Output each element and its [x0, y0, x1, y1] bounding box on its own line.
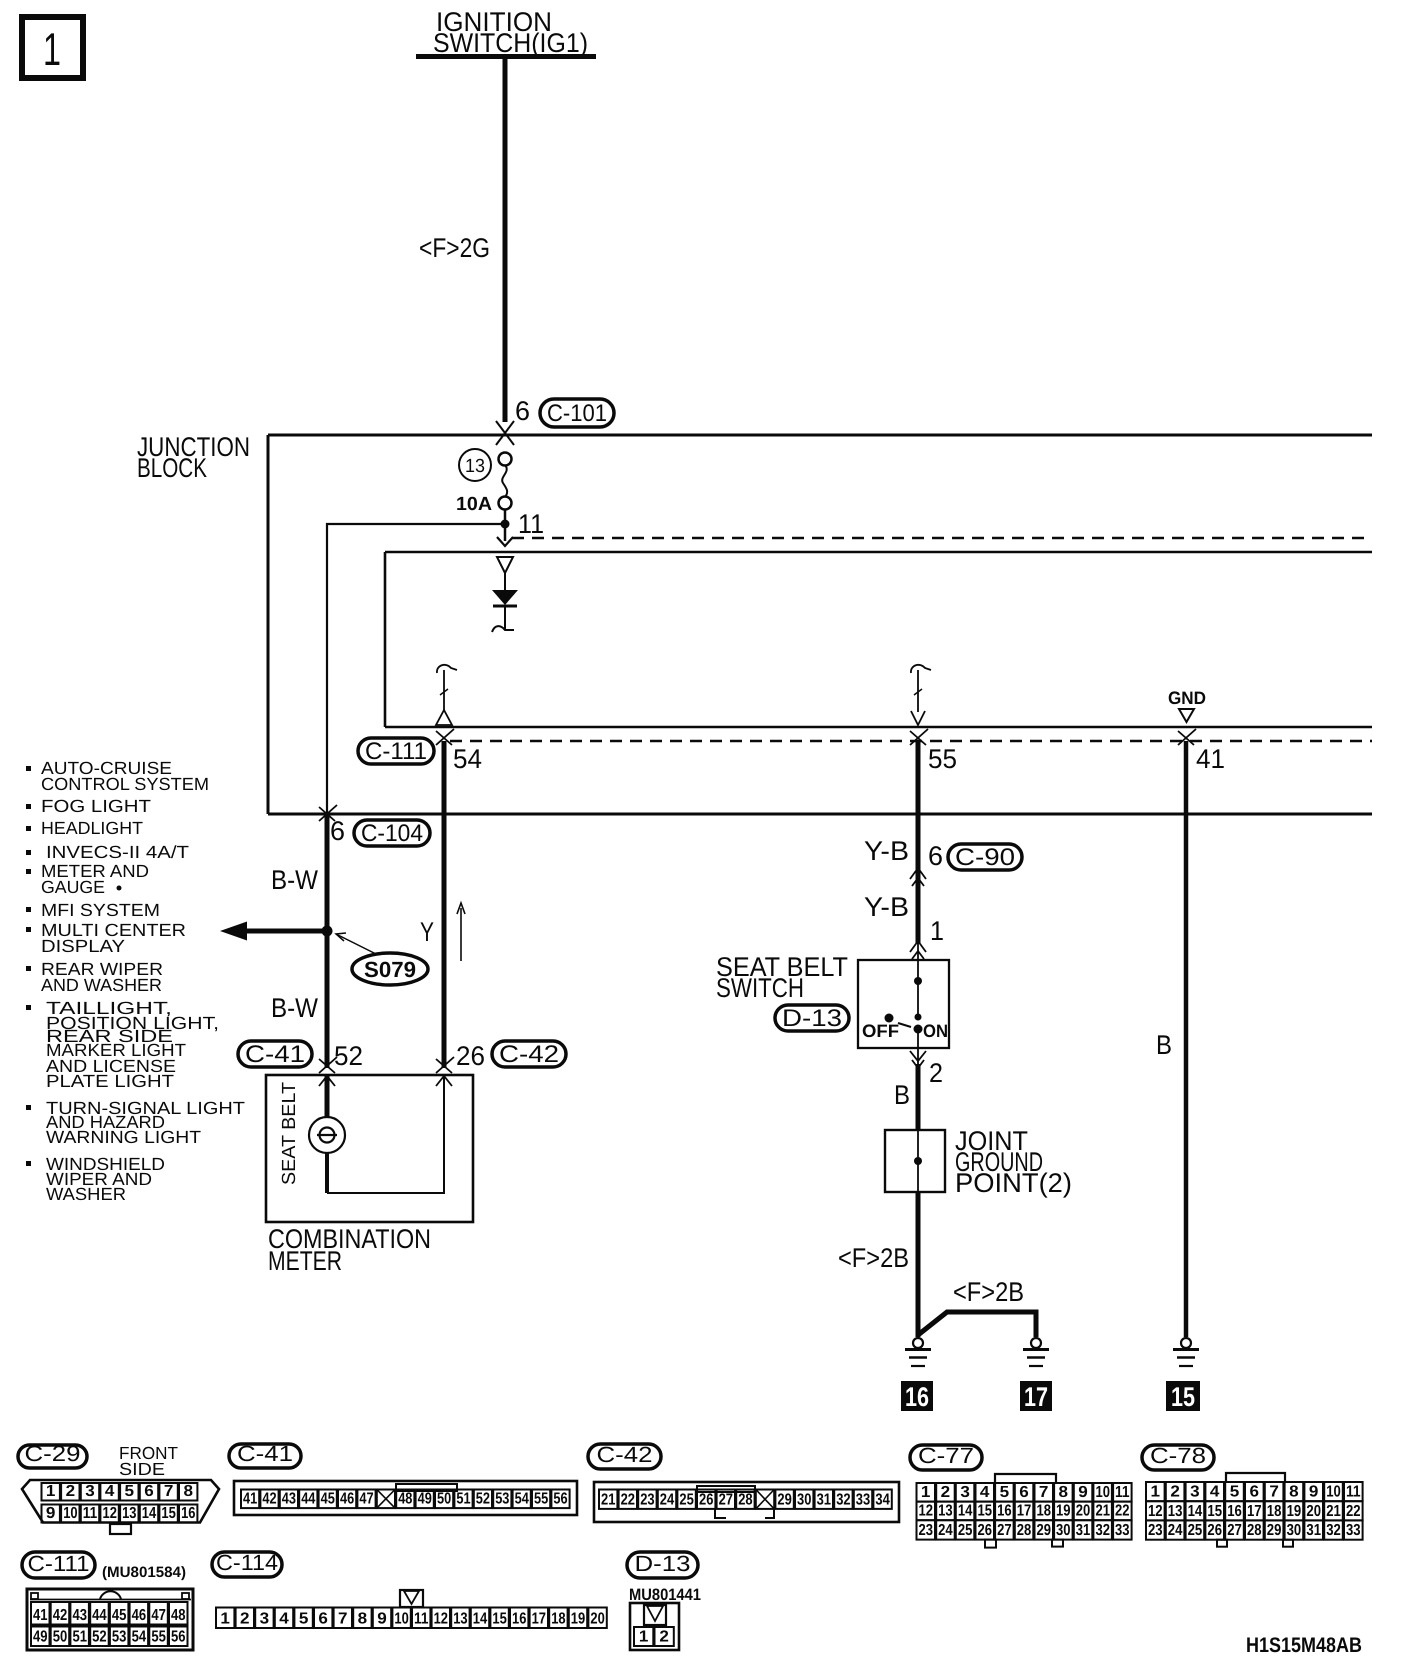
- connector C-42 pins: [599, 1490, 617, 1509]
- ground ref box 15: [1166, 1381, 1200, 1412]
- svg-text:MU801441: MU801441: [629, 1586, 701, 1604]
- junction block box: [268, 435, 1372, 814]
- fuse 13 10A: [499, 453, 512, 510]
- connector C-111: [358, 738, 434, 765]
- svg-text:GAUGE: GAUGE: [41, 877, 105, 897]
- svg-text:FOG LIGHT: FOG LIGHT: [41, 796, 151, 816]
- svg-text:29: 29: [1267, 1522, 1282, 1539]
- svg-text:C-104: C-104: [361, 820, 423, 847]
- svg-text:18: 18: [1267, 1503, 1282, 1520]
- svg-text:C-101: C-101: [547, 400, 607, 427]
- fuse number circle 13: [459, 449, 491, 481]
- svg-text:Y: Y: [420, 917, 434, 947]
- connector chevrons at C-90: [910, 868, 926, 886]
- svg-text:GND: GND: [1168, 688, 1206, 708]
- connector C-78 housing bracket: [1226, 1473, 1285, 1483]
- svg-text:B-W: B-W: [271, 865, 318, 895]
- svg-text:27: 27: [719, 1491, 733, 1508]
- wire B-W from junction block to combination meter: [325, 816, 330, 1068]
- svg-text:20: 20: [1306, 1503, 1321, 1520]
- connector C-78 title: [1142, 1445, 1214, 1470]
- svg-text:7: 7: [1039, 1484, 1049, 1501]
- svg-text:14: 14: [473, 1611, 487, 1628]
- ground symbol 15: [1173, 1338, 1199, 1366]
- svg-text:33: 33: [856, 1491, 870, 1508]
- connector C-77 title: [910, 1445, 982, 1470]
- svg-text:4: 4: [980, 1484, 990, 1501]
- svg-text:Y-B: Y-B: [864, 892, 909, 922]
- connector D-13 pins: [634, 1627, 653, 1646]
- svg-text:1: 1: [930, 916, 944, 946]
- svg-text:C-78: C-78: [1150, 1443, 1206, 1468]
- svg-text:10: 10: [394, 1611, 408, 1628]
- GND label and symbol: [1168, 688, 1206, 722]
- connector C-114 pins: [216, 1608, 234, 1629]
- svg-text:6: 6: [1250, 1484, 1260, 1501]
- crossing mark pin 41: [1178, 729, 1196, 745]
- branch arrow to other systems: [220, 922, 327, 941]
- svg-text:52: 52: [92, 1629, 107, 1646]
- svg-text:20: 20: [1076, 1503, 1091, 1520]
- svg-text:54: 54: [132, 1629, 147, 1646]
- svg-text:3: 3: [1190, 1484, 1200, 1501]
- svg-text:41: 41: [33, 1607, 48, 1624]
- svg-text:33: 33: [1346, 1522, 1361, 1539]
- lamp return wire inside meter: [327, 1075, 444, 1193]
- svg-text:33: 33: [1115, 1522, 1130, 1539]
- svg-text:41: 41: [243, 1491, 257, 1508]
- svg-text:10A: 10A: [456, 494, 492, 515]
- connector C-77 housing bracket: [995, 1474, 1056, 1483]
- wire B from pin 41 to ground 15: [1184, 741, 1189, 1337]
- ground symbol 17: [1023, 1338, 1049, 1366]
- svg-text:29: 29: [1036, 1522, 1051, 1539]
- svg-text:2: 2: [659, 1629, 669, 1646]
- svg-text:22: 22: [621, 1491, 635, 1508]
- svg-text:15: 15: [161, 1505, 175, 1522]
- wire from ignition switch, F 2G: [503, 59, 508, 422]
- svg-text:56: 56: [171, 1629, 186, 1646]
- ground ref box 17: [1020, 1381, 1052, 1412]
- system list: [26, 758, 245, 1204]
- svg-text:16: 16: [997, 1503, 1012, 1520]
- svg-text:H1S15M48AB: H1S15M48AB: [1246, 1634, 1362, 1657]
- svg-text:20: 20: [590, 1611, 604, 1628]
- connector C-111 housing: [27, 1589, 193, 1650]
- svg-text:1: 1: [220, 1611, 230, 1628]
- svg-text:19: 19: [1287, 1503, 1302, 1520]
- svg-text:1: 1: [46, 1483, 56, 1500]
- connector C-41 pins: [241, 1490, 259, 1509]
- svg-text:51: 51: [72, 1629, 87, 1646]
- svg-text:21: 21: [1326, 1503, 1341, 1520]
- svg-text:43: 43: [72, 1607, 87, 1624]
- svg-text:C-90: C-90: [955, 844, 1015, 871]
- svg-text:ON: ON: [923, 1021, 948, 1041]
- connector chevrons at D-13 pin 1: [910, 941, 926, 959]
- svg-text:5: 5: [299, 1611, 309, 1628]
- svg-text:18: 18: [1036, 1503, 1051, 1520]
- svg-text:10: 10: [1326, 1484, 1341, 1501]
- combination meter box: [266, 1075, 473, 1222]
- ground symbol 16: [905, 1338, 931, 1366]
- svg-text:32: 32: [1326, 1522, 1341, 1539]
- svg-text:54: 54: [453, 744, 482, 774]
- connector C-29 title: [18, 1445, 87, 1468]
- svg-text:12: 12: [1148, 1503, 1163, 1520]
- connector C-101: [540, 399, 614, 427]
- svg-text:26: 26: [699, 1491, 713, 1508]
- svg-text:C-42: C-42: [499, 1041, 559, 1068]
- svg-text:16: 16: [1227, 1503, 1242, 1520]
- wire Y-B from pin 55 to seat belt switch: [916, 741, 921, 944]
- svg-text:7: 7: [164, 1483, 174, 1500]
- svg-text:<F>2B: <F>2B: [838, 1243, 909, 1273]
- connector C-111 title: [22, 1552, 95, 1578]
- wire below fuse: [504, 509, 507, 541]
- svg-text:14: 14: [958, 1503, 973, 1520]
- svg-text:13: 13: [453, 1611, 467, 1628]
- junction node S079: [322, 926, 333, 937]
- svg-text:50: 50: [53, 1629, 68, 1646]
- svg-text:43: 43: [282, 1491, 296, 1508]
- svg-text:C-114: C-114: [216, 1550, 278, 1575]
- svg-text:48: 48: [171, 1607, 186, 1624]
- svg-text:6: 6: [515, 396, 530, 426]
- branch wire F 2B to ground 17: [918, 1312, 1036, 1337]
- svg-text:1: 1: [639, 1629, 649, 1646]
- svg-text:55: 55: [534, 1491, 548, 1508]
- svg-text:17: 17: [1247, 1503, 1262, 1520]
- connector C-41: [238, 1041, 312, 1068]
- svg-text:BLOCK: BLOCK: [137, 453, 207, 483]
- svg-text:C-42: C-42: [597, 1442, 653, 1467]
- svg-text:2: 2: [941, 1484, 951, 1501]
- connector C-42 label oval: [492, 1041, 566, 1068]
- svg-text:55: 55: [151, 1629, 166, 1646]
- svg-text:SIDE: SIDE: [119, 1459, 165, 1479]
- svg-text:44: 44: [92, 1607, 107, 1624]
- svg-text:46: 46: [340, 1491, 354, 1508]
- svg-text:INVECS-II 4A/T: INVECS-II 4A/T: [46, 842, 189, 862]
- seat belt switch label: [716, 952, 848, 1003]
- svg-text:13: 13: [465, 456, 485, 477]
- svg-text:31: 31: [1306, 1522, 1321, 1539]
- svg-text:21: 21: [1095, 1503, 1110, 1520]
- connector C-41 title: [229, 1444, 301, 1468]
- svg-text:3: 3: [260, 1611, 270, 1628]
- svg-text:42: 42: [262, 1491, 276, 1508]
- svg-text:25: 25: [958, 1522, 973, 1539]
- svg-text:1: 1: [1151, 1484, 1161, 1501]
- svg-text:C-111: C-111: [28, 1551, 90, 1576]
- connector C-114 title: [212, 1552, 282, 1577]
- svg-text:WARNING LIGHT: WARNING LIGHT: [46, 1127, 201, 1147]
- connector crossing mark at C-101: [496, 421, 514, 445]
- svg-text:17: 17: [532, 1611, 546, 1628]
- svg-text:11: 11: [83, 1505, 97, 1522]
- svg-text:52: 52: [476, 1491, 490, 1508]
- svg-text:9: 9: [377, 1611, 387, 1628]
- svg-text:PLATE LIGHT: PLATE LIGHT: [46, 1071, 174, 1091]
- svg-text:19: 19: [1056, 1503, 1071, 1520]
- svg-text:27: 27: [1227, 1522, 1242, 1539]
- svg-text:6: 6: [1019, 1484, 1029, 1501]
- svg-text:14: 14: [142, 1505, 156, 1522]
- svg-text:B-W: B-W: [271, 993, 318, 1023]
- connector C-111 pins: [31, 1602, 50, 1625]
- svg-text:9: 9: [1309, 1484, 1319, 1501]
- svg-text:11: 11: [1115, 1484, 1130, 1501]
- svg-text:18: 18: [551, 1611, 565, 1628]
- svg-text:WASHER: WASHER: [46, 1184, 126, 1204]
- svg-text:8: 8: [1289, 1484, 1299, 1501]
- wire F 2B to ground 16: [916, 1192, 921, 1337]
- svg-text:D-13: D-13: [782, 1005, 842, 1032]
- svg-text:METER: METER: [268, 1246, 342, 1276]
- connector C-42 housing: [594, 1482, 899, 1522]
- svg-text:MFI SYSTEM: MFI SYSTEM: [41, 900, 160, 920]
- seat belt switch box: [858, 960, 949, 1048]
- svg-text:4: 4: [279, 1611, 289, 1628]
- seat belt warning lamp: [309, 1075, 345, 1193]
- svg-text:30: 30: [1287, 1522, 1302, 1539]
- svg-text:22: 22: [1115, 1503, 1130, 1520]
- svg-text:HEADLIGHT: HEADLIGHT: [41, 818, 143, 838]
- svg-text:15: 15: [977, 1503, 992, 1520]
- svg-text:53: 53: [495, 1491, 509, 1508]
- svg-text:30: 30: [1056, 1522, 1071, 1539]
- svg-text:34: 34: [875, 1491, 889, 1508]
- svg-text:15: 15: [1207, 1503, 1222, 1520]
- svg-text:11: 11: [1346, 1484, 1361, 1501]
- switch internals: [862, 960, 948, 1048]
- svg-text:28: 28: [1247, 1522, 1262, 1539]
- dashed bus line lower (connector row): [450, 740, 1372, 742]
- svg-text:SWITCH: SWITCH: [716, 973, 804, 1003]
- svg-text:15: 15: [1171, 1382, 1195, 1412]
- connector D-13 housing: [630, 1603, 679, 1650]
- svg-text:32: 32: [836, 1491, 850, 1508]
- svg-text:POINT(2): POINT(2): [955, 1168, 1072, 1198]
- svg-text:C-77: C-77: [918, 1443, 974, 1468]
- svg-text:28: 28: [1017, 1522, 1032, 1539]
- svg-text:26: 26: [456, 1041, 485, 1071]
- svg-text:8: 8: [1059, 1484, 1069, 1501]
- svg-text:C-29: C-29: [25, 1441, 81, 1466]
- svg-text:45: 45: [321, 1491, 335, 1508]
- crossing mark pin 54: [436, 729, 454, 745]
- svg-text:8: 8: [184, 1483, 194, 1500]
- svg-text:C-41: C-41: [237, 1441, 293, 1466]
- connector D-13 label oval: [775, 1005, 849, 1032]
- svg-text:1: 1: [921, 1484, 931, 1501]
- crossing mark at C-104: [319, 805, 337, 821]
- internal link arrow right (to pin 55): [911, 665, 931, 725]
- arrowhead down into inner box: [497, 537, 513, 546]
- connector C-90: [948, 844, 1022, 871]
- splice label S079: [336, 933, 428, 985]
- svg-text:16: 16: [512, 1611, 526, 1628]
- svg-text:C-111: C-111: [365, 738, 427, 765]
- svg-text:50: 50: [437, 1491, 451, 1508]
- connector C-78 pins: [1146, 1482, 1165, 1501]
- svg-text:10: 10: [63, 1505, 77, 1522]
- svg-text:<F>2B: <F>2B: [953, 1277, 1024, 1307]
- svg-text:2: 2: [240, 1611, 250, 1628]
- svg-text:CONTROL SYSTEM: CONTROL SYSTEM: [41, 774, 209, 794]
- combination meter label: [268, 1224, 431, 1276]
- wire Y from pin 54 down to combination meter: [442, 741, 447, 1068]
- svg-text:47: 47: [359, 1491, 373, 1508]
- internal link arrow left (to pin 54): [436, 665, 457, 725]
- page number box 1: [22, 17, 83, 78]
- svg-text:C-41: C-41: [245, 1041, 305, 1068]
- svg-text:24: 24: [1168, 1522, 1183, 1539]
- connector C-29 housing: [22, 1480, 219, 1523]
- crossing mark pin 55: [910, 729, 928, 745]
- svg-text:1: 1: [43, 23, 61, 75]
- svg-text:OFF: OFF: [862, 1021, 899, 1041]
- svg-text:42: 42: [53, 1607, 68, 1624]
- svg-text:6: 6: [144, 1483, 154, 1500]
- connector D-13 title: [627, 1552, 698, 1578]
- dashed bus line upper: [512, 537, 1372, 539]
- svg-text:21: 21: [601, 1491, 615, 1508]
- svg-text:15: 15: [492, 1611, 506, 1628]
- svg-text:49: 49: [33, 1629, 48, 1646]
- svg-text:31: 31: [1076, 1522, 1091, 1539]
- svg-text:22: 22: [1346, 1503, 1361, 1520]
- svg-text:26: 26: [1207, 1522, 1222, 1539]
- ignition switch (IG1) label: [416, 7, 596, 59]
- wire from node 11 to left branch: [327, 524, 505, 816]
- wire lead into seat belt switch: [917, 944, 919, 960]
- svg-text:6: 6: [928, 841, 943, 871]
- svg-text:47: 47: [151, 1607, 166, 1624]
- svg-text:23: 23: [1148, 1522, 1163, 1539]
- svg-text:5: 5: [1230, 1484, 1240, 1501]
- svg-text:17: 17: [1017, 1503, 1032, 1520]
- inner junction box: [385, 552, 1372, 727]
- svg-text:49: 49: [418, 1491, 432, 1508]
- svg-text:3: 3: [85, 1483, 95, 1500]
- svg-text:12: 12: [918, 1503, 933, 1520]
- svg-text:31: 31: [817, 1491, 831, 1508]
- svg-text:53: 53: [112, 1629, 127, 1646]
- svg-text:AND WASHER: AND WASHER: [41, 975, 162, 995]
- connector chevrons at D-13 pin 2: [910, 1051, 926, 1068]
- direction arrow up beside wire Y: [457, 903, 465, 961]
- svg-text:2: 2: [1170, 1484, 1180, 1501]
- svg-text:51: 51: [456, 1491, 470, 1508]
- svg-text:13: 13: [1168, 1503, 1183, 1520]
- svg-text:54: 54: [515, 1491, 529, 1508]
- svg-text:4: 4: [105, 1483, 115, 1500]
- svg-text:9: 9: [1078, 1484, 1088, 1501]
- svg-text:8: 8: [358, 1611, 368, 1628]
- junction block label: [137, 432, 250, 483]
- svg-text:56: 56: [553, 1491, 567, 1508]
- svg-text:4: 4: [1210, 1484, 1220, 1501]
- svg-text:B: B: [1156, 1030, 1172, 1060]
- svg-text:10: 10: [1095, 1484, 1110, 1501]
- svg-text:DISPLAY: DISPLAY: [41, 936, 125, 956]
- svg-text:2: 2: [929, 1058, 943, 1088]
- joint ground point box: [885, 1130, 945, 1192]
- crossing mark pin 26: [436, 1057, 454, 1086]
- svg-text:25: 25: [1188, 1522, 1203, 1539]
- svg-text:12: 12: [103, 1505, 117, 1522]
- svg-text:19: 19: [571, 1611, 585, 1628]
- svg-text:3: 3: [960, 1484, 970, 1501]
- connector C-114 keying mark: [400, 1590, 423, 1607]
- joint ground point label: [955, 1126, 1072, 1198]
- svg-text:9: 9: [46, 1505, 56, 1522]
- svg-text:12: 12: [434, 1611, 448, 1628]
- svg-text:2: 2: [66, 1483, 76, 1500]
- svg-text:28: 28: [738, 1491, 752, 1508]
- svg-text:5: 5: [125, 1483, 135, 1500]
- ground ref box 16: [901, 1381, 933, 1412]
- svg-text:5: 5: [1000, 1484, 1010, 1501]
- svg-text:55: 55: [928, 744, 957, 774]
- connector C-29 pins: [42, 1483, 60, 1501]
- svg-text:27: 27: [997, 1522, 1012, 1539]
- svg-text:S079: S079: [364, 957, 416, 982]
- svg-text:SWITCH(IG1): SWITCH(IG1): [433, 28, 588, 58]
- diode in junction block: [492, 557, 518, 632]
- svg-text:B: B: [894, 1080, 910, 1110]
- svg-text:25: 25: [679, 1491, 693, 1508]
- svg-text:32: 32: [1095, 1522, 1110, 1539]
- svg-text:6: 6: [330, 816, 345, 846]
- svg-text:24: 24: [938, 1522, 953, 1539]
- svg-text:13: 13: [938, 1503, 953, 1520]
- svg-text:24: 24: [660, 1491, 674, 1508]
- junction node 11: [501, 520, 510, 529]
- svg-text:7: 7: [338, 1611, 348, 1628]
- svg-text:41: 41: [1196, 744, 1225, 774]
- crossing mark pin 52: [319, 1057, 337, 1086]
- wire B to joint ground: [917, 1048, 919, 1066]
- svg-text:52: 52: [334, 1041, 363, 1071]
- svg-text:45: 45: [112, 1607, 127, 1624]
- connector C-42 title: [588, 1444, 661, 1469]
- svg-text:16: 16: [181, 1505, 195, 1522]
- connector C-41 housing: [234, 1481, 577, 1515]
- svg-text:14: 14: [1188, 1503, 1203, 1520]
- svg-text:D-13: D-13: [635, 1551, 691, 1576]
- svg-text:26: 26: [977, 1522, 992, 1539]
- connector C-104: [354, 820, 430, 847]
- svg-text:44: 44: [301, 1491, 315, 1508]
- svg-text:13: 13: [122, 1505, 136, 1522]
- svg-text:48: 48: [398, 1491, 412, 1508]
- svg-text:11: 11: [414, 1611, 428, 1628]
- svg-text:17: 17: [1024, 1382, 1048, 1412]
- svg-text:16: 16: [905, 1382, 929, 1412]
- svg-text:11: 11: [518, 509, 544, 539]
- svg-text:46: 46: [132, 1607, 147, 1624]
- svg-text:7: 7: [1269, 1484, 1279, 1501]
- svg-text:6: 6: [318, 1611, 328, 1628]
- svg-text:(MU801584): (MU801584): [102, 1564, 186, 1581]
- svg-text:Y-B: Y-B: [864, 836, 909, 866]
- svg-text:30: 30: [797, 1491, 811, 1508]
- svg-text:<F>2G: <F>2G: [419, 233, 490, 263]
- svg-text:23: 23: [640, 1491, 654, 1508]
